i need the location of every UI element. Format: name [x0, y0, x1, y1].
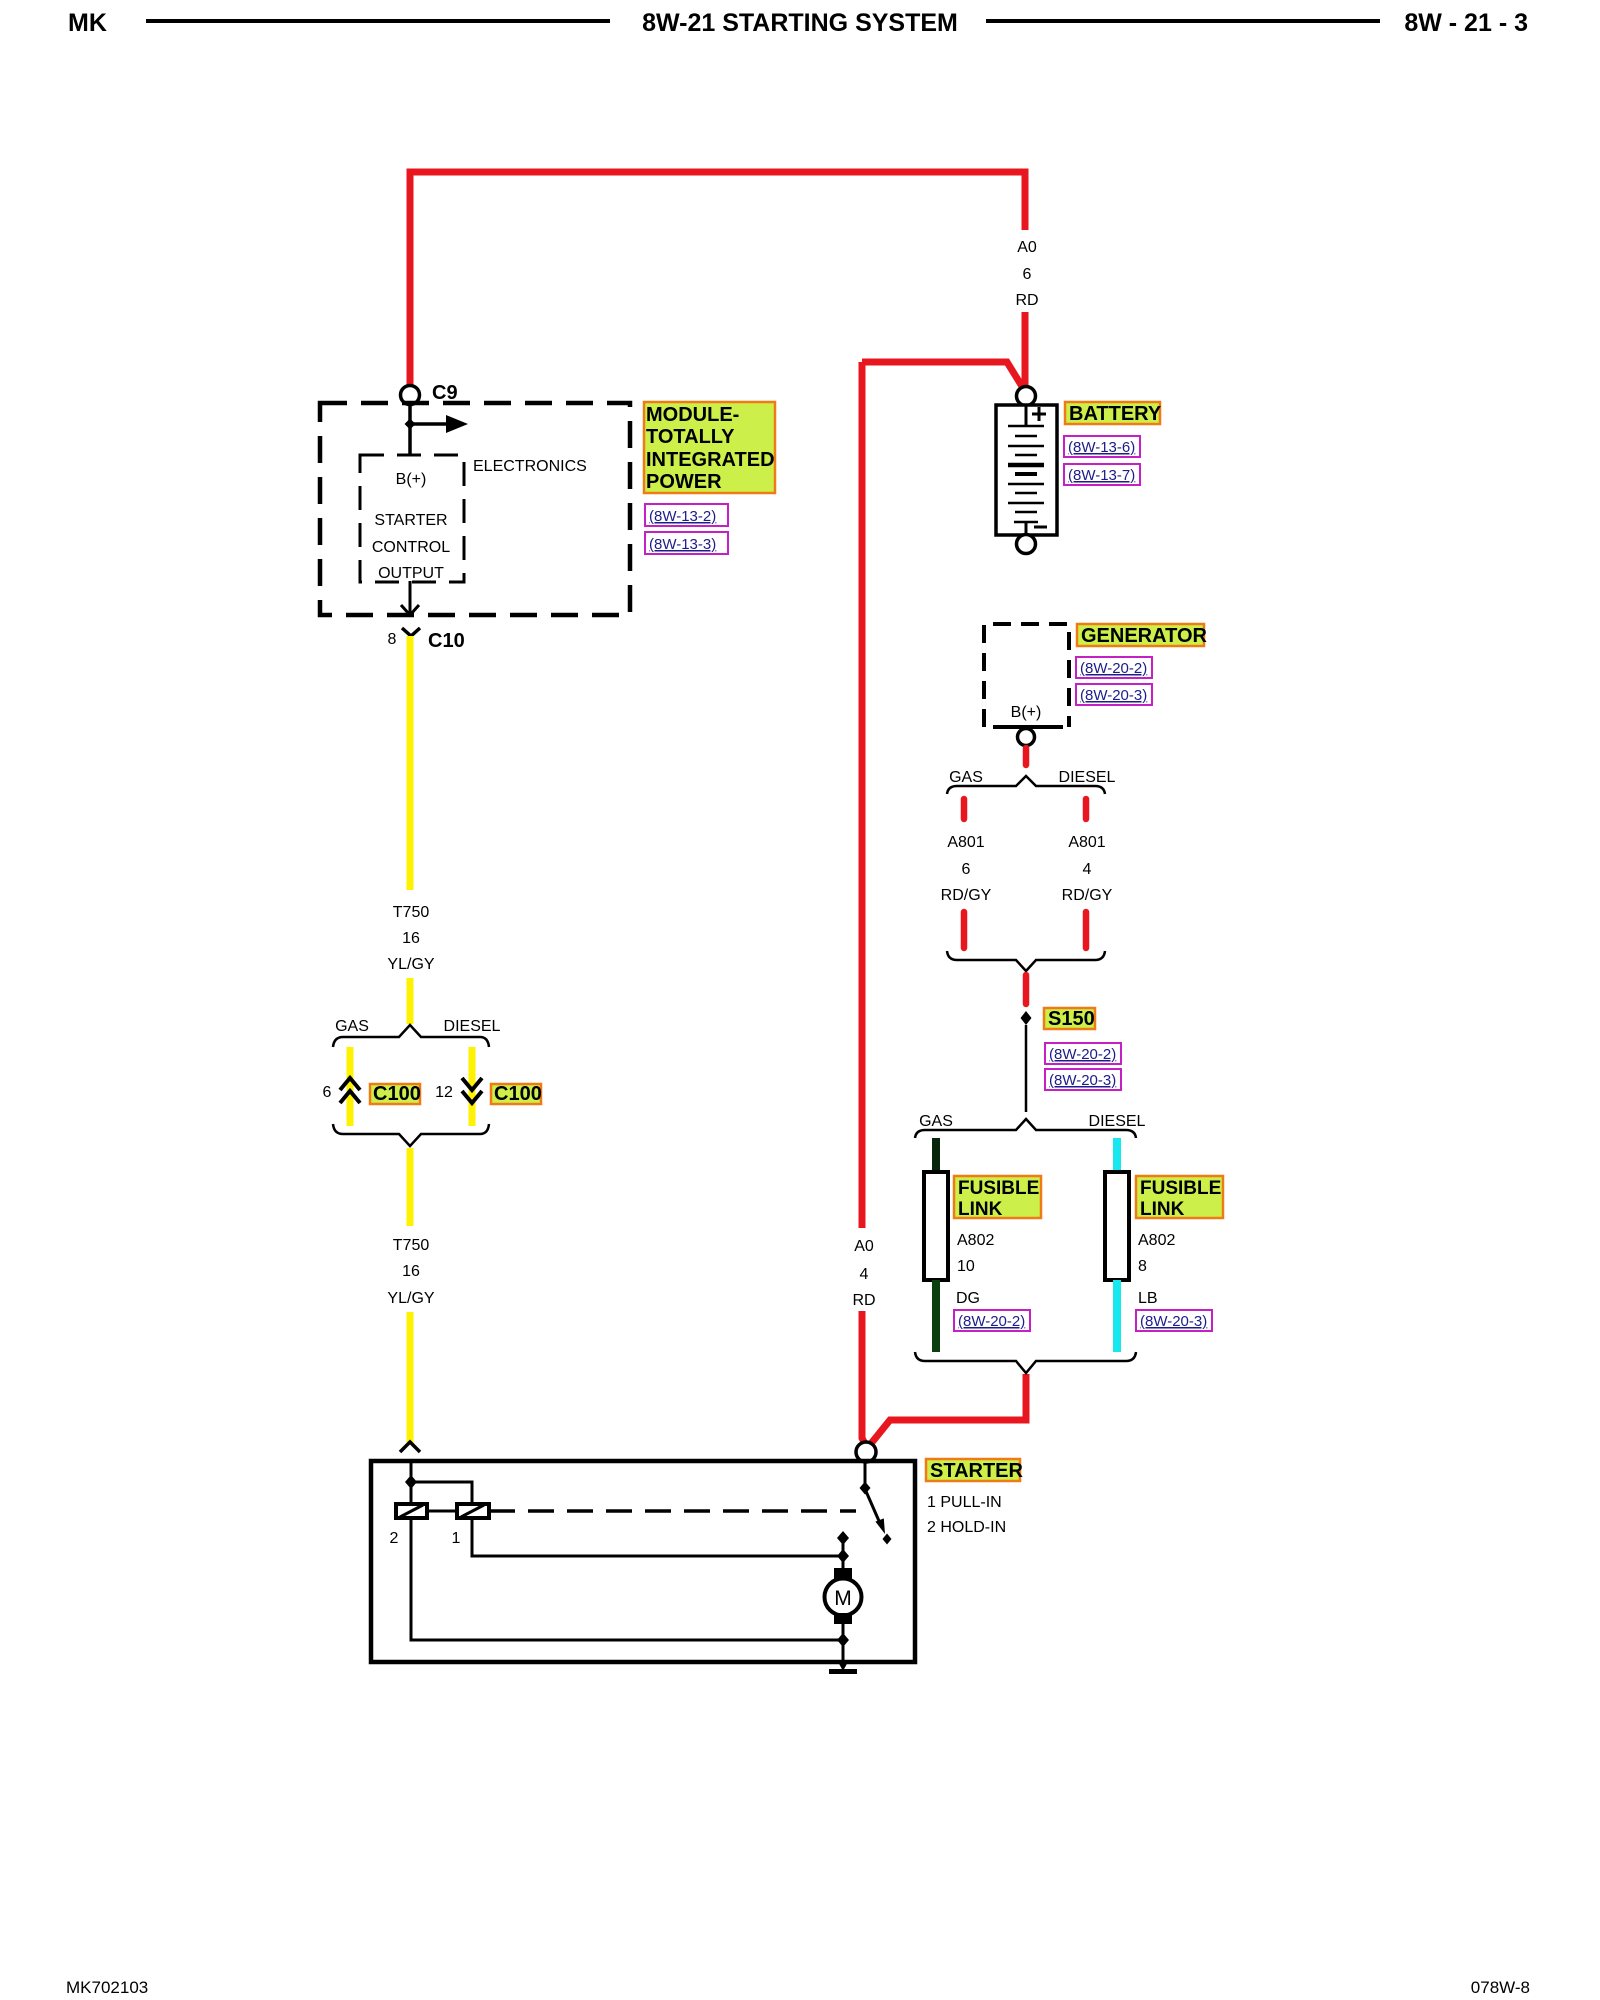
- module TIPM outer dashed box: [320, 403, 630, 615]
- svg-text:OUTPUT: OUTPUT: [378, 565, 444, 582]
- svg-text:MODULE-: MODULE-: [646, 404, 739, 426]
- ref 8W-20-3 (S150): [1045, 1069, 1121, 1090]
- fusible link diesel body: [1105, 1172, 1129, 1280]
- svg-text:16: 16: [402, 930, 420, 947]
- svg-text:4: 4: [1083, 861, 1092, 878]
- battery - sign: [1034, 526, 1047, 529]
- svg-text:GAS: GAS: [949, 769, 983, 786]
- svg-text:LINK: LINK: [958, 1199, 1003, 1220]
- starter box: [371, 1461, 915, 1662]
- motor M: [842, 1556, 845, 1568]
- ref 8W-13-2: [645, 504, 728, 526]
- svg-text:S150: S150: [1048, 1008, 1095, 1030]
- svg-text:6: 6: [323, 1084, 332, 1101]
- battery body: [996, 405, 1057, 535]
- wire stub C9 into module: [408, 404, 412, 456]
- label S150: [1044, 1008, 1095, 1030]
- header rule right: [986, 19, 1380, 23]
- relay coil 1: [457, 1504, 489, 1518]
- fusible split brace: [915, 1119, 1136, 1138]
- svg-text:1 PULL-IN: 1 PULL-IN: [927, 1494, 1002, 1511]
- wire coil1 to motor top: [472, 1518, 843, 1556]
- battery + sign: [1032, 407, 1046, 421]
- svg-text:DG: DG: [956, 1290, 980, 1307]
- svg-text:C100: C100: [373, 1083, 421, 1105]
- svg-text:(8W-20-2): (8W-20-2): [958, 1313, 1025, 1330]
- label FUSIBLE LINK diesel: [1136, 1176, 1223, 1220]
- link between coils: [427, 1510, 457, 1513]
- svg-text:(8W-20-2): (8W-20-2): [1049, 1046, 1116, 1063]
- svg-text:RD/GY: RD/GY: [1062, 887, 1113, 904]
- svg-text:ELECTRONICS: ELECTRONICS: [473, 458, 587, 475]
- ref 8W-13-3: [645, 532, 728, 554]
- svg-text:(8W-13-2): (8W-13-2): [649, 508, 716, 525]
- wire black from S150 to split: [1025, 1025, 1028, 1112]
- wire red gas leg lower: [961, 912, 968, 948]
- wire T750 16 YL/GY lower yellow: [407, 1148, 414, 1226]
- wire LB below diesel fusible link: [1113, 1280, 1121, 1352]
- ref 8W-20-2 (S150): [1045, 1043, 1121, 1064]
- svg-text:A0: A0: [1017, 239, 1037, 256]
- wire T750 16 YL/GY upper yellow: [407, 636, 414, 890]
- svg-text:8: 8: [388, 631, 397, 648]
- svg-text:8W - 21 - 3: 8W - 21 - 3: [1404, 9, 1528, 37]
- svg-text:A802: A802: [957, 1232, 994, 1249]
- svg-text:STARTER: STARTER: [930, 1460, 1024, 1482]
- svg-text:(8W-13-3): (8W-13-3): [649, 536, 716, 553]
- label A802 10 DG: [956, 1232, 994, 1307]
- junction dot: [405, 419, 416, 430]
- battery plates: [1008, 426, 1044, 522]
- svg-text:(8W-13-6): (8W-13-6): [1068, 439, 1135, 456]
- connector C9 circle: [401, 386, 420, 405]
- svg-text:16: 16: [402, 1263, 420, 1280]
- svg-text:C9: C9: [432, 382, 458, 404]
- svg-text:C100: C100: [494, 1083, 542, 1105]
- svg-text:6: 6: [962, 861, 971, 878]
- wire A801 6 RD/GY stub: [961, 799, 968, 819]
- label STARTER CONTROL OUTPUT: [372, 512, 450, 582]
- ref 8W-20-2 (gas link): [954, 1310, 1030, 1331]
- svg-text:T750: T750: [393, 1237, 430, 1254]
- generator merge brace: [947, 951, 1105, 971]
- wire red stub below generator: [1023, 748, 1030, 765]
- wire red diesel leg lower: [1083, 912, 1090, 948]
- svg-text:RD/GY: RD/GY: [941, 887, 992, 904]
- battery bottom stem: [1025, 522, 1028, 535]
- svg-text:12: 12: [435, 1084, 453, 1101]
- wire red from fusible links to starter: [869, 1374, 1026, 1446]
- generator dashed box: [984, 624, 1069, 727]
- connector C100 diesel (pin 12) chevrons down: [462, 1078, 482, 1090]
- wire LB stub above diesel fusible link: [1113, 1138, 1121, 1174]
- battery B+ terminal circle: [1017, 387, 1036, 406]
- ref 8W-13-6: [1064, 436, 1140, 457]
- svg-text:A801: A801: [947, 834, 984, 851]
- switch blade: [865, 1489, 879, 1521]
- label A802 8 LB: [1138, 1232, 1175, 1307]
- label GENERATOR: [1077, 624, 1207, 647]
- wire A0 6 RD top horizontal red: [410, 172, 1025, 230]
- label STARTER: [926, 1459, 1024, 1482]
- svg-text:BATTERY: BATTERY: [1069, 403, 1162, 425]
- ground: [837, 1660, 849, 1671]
- wire red branch to starter (top corner): [862, 362, 1023, 388]
- svg-text:M: M: [834, 1587, 852, 1610]
- svg-text:LINK: LINK: [1140, 1199, 1185, 1220]
- generator terminal circle: [1018, 729, 1035, 746]
- connector into starter: [400, 1442, 420, 1452]
- label A0 6 RD (battery feed): [1015, 239, 1038, 309]
- switch fixed contact: [837, 1531, 849, 1545]
- brace bottom: [333, 1124, 489, 1146]
- fusible link gas body: [924, 1172, 948, 1280]
- svg-text:FUSIBLE: FUSIBLE: [958, 1178, 1039, 1199]
- label A0 4 RD (starter feed): [852, 1238, 875, 1309]
- dashed actuation line: [489, 1509, 856, 1513]
- wire red to S150: [1023, 975, 1030, 1004]
- svg-text:2: 2: [390, 1530, 399, 1547]
- switch pivot: [864, 1462, 867, 1489]
- svg-text:INTEGRATED: INTEGRATED: [646, 449, 775, 471]
- svg-text:B(+): B(+): [1011, 704, 1042, 721]
- svg-text:B(+): B(+): [396, 471, 427, 488]
- svg-text:T750: T750: [393, 904, 430, 921]
- svg-text:DIESEL: DIESEL: [444, 1018, 501, 1035]
- svg-text:(8W-20-3): (8W-20-3): [1049, 1072, 1116, 1089]
- svg-text:MK: MK: [68, 9, 107, 37]
- connector C100 gas (pin 6) chevrons up: [340, 1078, 360, 1090]
- svg-text:1: 1: [452, 1530, 461, 1547]
- wire red lower vertical into starter circle: [862, 1311, 866, 1446]
- starter control output inner dashed box: [360, 455, 464, 582]
- generator split brace: [947, 776, 1105, 794]
- label BATTERY: [1065, 402, 1162, 425]
- label FUSIBLE LINK gas: [954, 1176, 1041, 1220]
- svg-text:A0: A0: [854, 1238, 874, 1255]
- svg-text:LB: LB: [1138, 1290, 1158, 1307]
- svg-text:DIESEL: DIESEL: [1089, 1113, 1146, 1130]
- battery bottom terminal circle: [1017, 535, 1036, 554]
- wire A801 4 RD/GY stub: [1083, 799, 1090, 819]
- wire red left vertical into C9: [407, 172, 414, 386]
- svg-text:6: 6: [1023, 266, 1032, 283]
- wire yellow gas leg: [347, 1047, 354, 1126]
- svg-text:A801: A801: [1068, 834, 1105, 851]
- wire yellow diesel leg: [469, 1047, 476, 1126]
- junction at motor top: [837, 1549, 849, 1563]
- svg-text:YL/GY: YL/GY: [387, 956, 434, 973]
- wire from yellow connector to junction: [410, 1461, 413, 1504]
- ref 8W-13-7: [1064, 464, 1140, 485]
- junction dot: [405, 1475, 417, 1489]
- svg-text:4: 4: [860, 1266, 869, 1283]
- svg-text:10: 10: [957, 1258, 975, 1275]
- wire red long vertical to starter: [859, 362, 866, 1228]
- brace top: [333, 1025, 489, 1047]
- fusible merge brace: [915, 1352, 1136, 1373]
- battery top stem: [1025, 405, 1028, 426]
- generator bottom solid segment: [993, 725, 1063, 729]
- svg-text:C10: C10: [428, 630, 465, 652]
- ref 8W-20-3 (generator): [1076, 684, 1152, 705]
- arrow to electronics: [410, 422, 446, 426]
- wire to ground: [842, 1640, 845, 1665]
- wire red resumes to battery: [1022, 312, 1029, 388]
- svg-text:MK702103: MK702103: [66, 1978, 148, 1997]
- wire DG below gas fusible link: [932, 1280, 940, 1352]
- wire branch to coil 1: [411, 1482, 472, 1504]
- svg-text:GAS: GAS: [919, 1113, 953, 1130]
- relay coil 2: [396, 1504, 427, 1518]
- wire coil2 to motor bottom: [411, 1518, 843, 1640]
- svg-text:RD: RD: [852, 1292, 875, 1309]
- ref 8W-20-2 (generator): [1076, 657, 1152, 678]
- svg-text:STARTER: STARTER: [374, 512, 447, 529]
- label MODULE-TOTALLY INTEGRATED POWER: [644, 402, 775, 493]
- svg-text:(8W-20-3): (8W-20-3): [1140, 1313, 1207, 1330]
- svg-text:8W-21 STARTING SYSTEM: 8W-21 STARTING SYSTEM: [642, 9, 958, 37]
- svg-text:(8W-20-3): (8W-20-3): [1080, 687, 1147, 704]
- label A801 4 RD/GY: [1062, 834, 1113, 904]
- svg-text:(8W-20-2): (8W-20-2): [1080, 660, 1147, 677]
- header rule left: [146, 19, 610, 23]
- svg-text:GAS: GAS: [335, 1018, 369, 1035]
- junction at motor bottom: [837, 1633, 849, 1647]
- svg-text:TOTALLY: TOTALLY: [646, 426, 735, 448]
- svg-text:POWER: POWER: [646, 471, 722, 493]
- ref 8W-20-3 (diesel link): [1136, 1310, 1212, 1331]
- svg-text:078W-8: 078W-8: [1471, 1978, 1530, 1997]
- starter terminal circle: [856, 1442, 876, 1462]
- svg-text:YL/GY: YL/GY: [387, 1290, 434, 1307]
- svg-text:(8W-13-7): (8W-13-7): [1068, 467, 1135, 484]
- svg-text:RD: RD: [1015, 292, 1038, 309]
- output arrow to C10: [409, 581, 412, 613]
- wire DG stub above gas fusible link: [932, 1138, 940, 1174]
- svg-text:2 HOLD-IN: 2 HOLD-IN: [927, 1519, 1006, 1536]
- svg-text:DIESEL: DIESEL: [1059, 769, 1116, 786]
- svg-text:FUSIBLE: FUSIBLE: [1140, 1178, 1221, 1199]
- svg-text:GENERATOR: GENERATOR: [1081, 625, 1207, 647]
- splice S150 diamond: [1021, 1011, 1032, 1025]
- svg-text:CONTROL: CONTROL: [372, 539, 450, 556]
- svg-text:A802: A802: [1138, 1232, 1175, 1249]
- svg-text:8: 8: [1138, 1258, 1147, 1275]
- label A801 6 RD/GY: [941, 834, 992, 904]
